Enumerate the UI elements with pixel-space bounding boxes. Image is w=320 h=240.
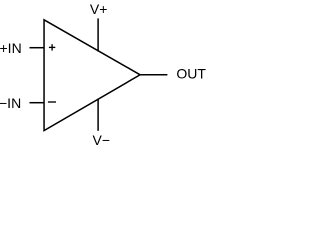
wire -IN lead bbox=[30, 102, 45, 104]
wire OUT lead bbox=[140, 74, 167, 76]
svg-text:+IN: +IN bbox=[0, 40, 22, 56]
minus polarity mark (inverting input) bbox=[48, 101, 56, 103]
wire V- lead bbox=[97, 99, 99, 131]
wire V+ lead bbox=[97, 18, 99, 51]
op-amp U1 triangle body bbox=[44, 20, 140, 131]
svg-text:V+: V+ bbox=[90, 1, 108, 17]
svg-text:OUT: OUT bbox=[176, 66, 206, 82]
plus polarity mark (noninverting input) bbox=[49, 44, 55, 50]
svg-text:−IN: −IN bbox=[0, 95, 21, 111]
svg-text:V−: V− bbox=[93, 132, 111, 148]
wire +IN lead bbox=[30, 47, 45, 49]
